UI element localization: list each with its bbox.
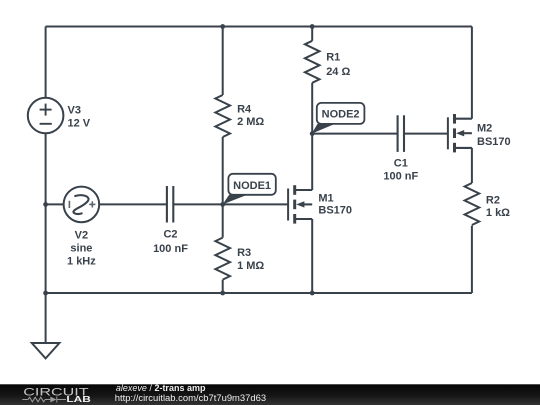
- transistor M1 (NMOS): [288, 185, 312, 223]
- M1 labels: [318, 193, 352, 217]
- junction bottom rail / R3: [220, 291, 225, 296]
- resistor R3: [215, 238, 230, 280]
- wire NODE2 to M1 drain: [311, 134, 313, 190]
- wire ground stem: [45, 293, 47, 343]
- voltage source V3: [28, 98, 64, 134]
- svg-text:100 nF: 100 nF: [383, 170, 418, 182]
- junction NODE2: [310, 131, 315, 136]
- footer title text: [115, 383, 266, 403]
- junction bottom rail / ground: [43, 291, 48, 296]
- svg-text:100 nF: 100 nF: [153, 243, 188, 255]
- wire NODE2 to C1: [312, 133, 397, 135]
- R1 labels: [326, 52, 350, 78]
- wire top rail: [46, 26, 472, 28]
- C1 labels: [383, 157, 418, 182]
- wire V2 to C2: [99, 203, 166, 205]
- wire R1 branch top: [311, 27, 313, 41]
- wire R2 to bottom rail: [471, 226, 473, 293]
- wire C2 to NODE1: [173, 203, 222, 205]
- wire left rail upper (top rail to V3): [45, 27, 47, 98]
- svg-text:R2: R2: [486, 195, 500, 207]
- V2 labels: [67, 229, 96, 267]
- wire bottom rail: [46, 292, 472, 294]
- svg-text:V3: V3: [68, 105, 81, 117]
- svg-text:1 MΩ: 1 MΩ: [237, 260, 264, 272]
- M2 labels: [477, 123, 511, 148]
- svg-text:NODE1: NODE1: [233, 180, 271, 192]
- wire NODE1 to M1 gate: [223, 203, 288, 205]
- svg-text:2 MΩ: 2 MΩ: [237, 116, 264, 128]
- junction left rail / V2: [43, 202, 48, 207]
- wire M2 source to R2: [471, 148, 473, 183]
- junction top rail / R4: [220, 24, 225, 29]
- node NODE2: [312, 103, 365, 134]
- svg-text:sine: sine: [70, 243, 92, 255]
- junction top rail / R1: [310, 24, 315, 29]
- svg-text:alexeve / 2-trans amp: alexeve / 2-trans amp: [116, 383, 206, 393]
- svg-text:1 kΩ: 1 kΩ: [486, 207, 510, 219]
- svg-text:M1: M1: [318, 193, 333, 205]
- node NODE1: [223, 174, 276, 205]
- svg-text:BS170: BS170: [318, 205, 352, 217]
- wire V2 left lead: [46, 203, 64, 205]
- svg-text:12 V: 12 V: [68, 118, 91, 130]
- wire R1 to NODE2: [311, 83, 313, 134]
- R4 labels: [237, 104, 264, 128]
- wire R4 to NODE1: [222, 137, 224, 204]
- ground: [32, 343, 60, 358]
- wire C1 to M2 gate: [404, 133, 448, 135]
- R2 labels: [486, 195, 510, 219]
- svg-text:R1: R1: [326, 52, 340, 64]
- svg-text:LAB: LAB: [66, 394, 90, 404]
- wire NODE1 to R3: [222, 204, 224, 237]
- svg-text:BS170: BS170: [477, 136, 511, 148]
- svg-text:R3: R3: [237, 247, 251, 259]
- CircuitLab logo: [22, 386, 91, 404]
- C2 labels: [153, 229, 188, 255]
- svg-text:1 kHz: 1 kHz: [67, 256, 96, 268]
- resistor R2: [465, 183, 480, 225]
- resistor R1: [305, 41, 320, 83]
- svg-text:M2: M2: [477, 123, 492, 135]
- svg-text:24 Ω: 24 Ω: [326, 66, 350, 78]
- wire M2 drain to top rail: [471, 27, 473, 119]
- svg-text:C1: C1: [394, 157, 408, 169]
- junction NODE1: [220, 202, 225, 207]
- R3 labels: [237, 247, 264, 272]
- svg-text:NODE2: NODE2: [322, 109, 360, 121]
- capacitor C1: [398, 115, 404, 152]
- wire left rail lower (V3 to bottom rail): [45, 133, 47, 293]
- wire R4 branch top: [222, 27, 224, 96]
- resistor R4: [215, 95, 230, 137]
- wire R3 to bottom rail: [222, 280, 224, 293]
- transistor M2 (NMOS): [448, 114, 472, 152]
- junction bottom rail / M1 source: [310, 291, 315, 296]
- V3 labels: [68, 105, 91, 130]
- wire M1 source to bottom rail: [311, 219, 313, 293]
- svg-text:R4: R4: [237, 104, 252, 116]
- voltage source V2 (sine): [64, 187, 100, 223]
- svg-text:V2: V2: [75, 229, 88, 241]
- svg-text:http://circuitlab.com/cb7t7u9m: http://circuitlab.com/cb7t7u9m37d63: [115, 393, 266, 403]
- capacitor C2: [167, 186, 173, 223]
- svg-text:C2: C2: [163, 229, 177, 241]
